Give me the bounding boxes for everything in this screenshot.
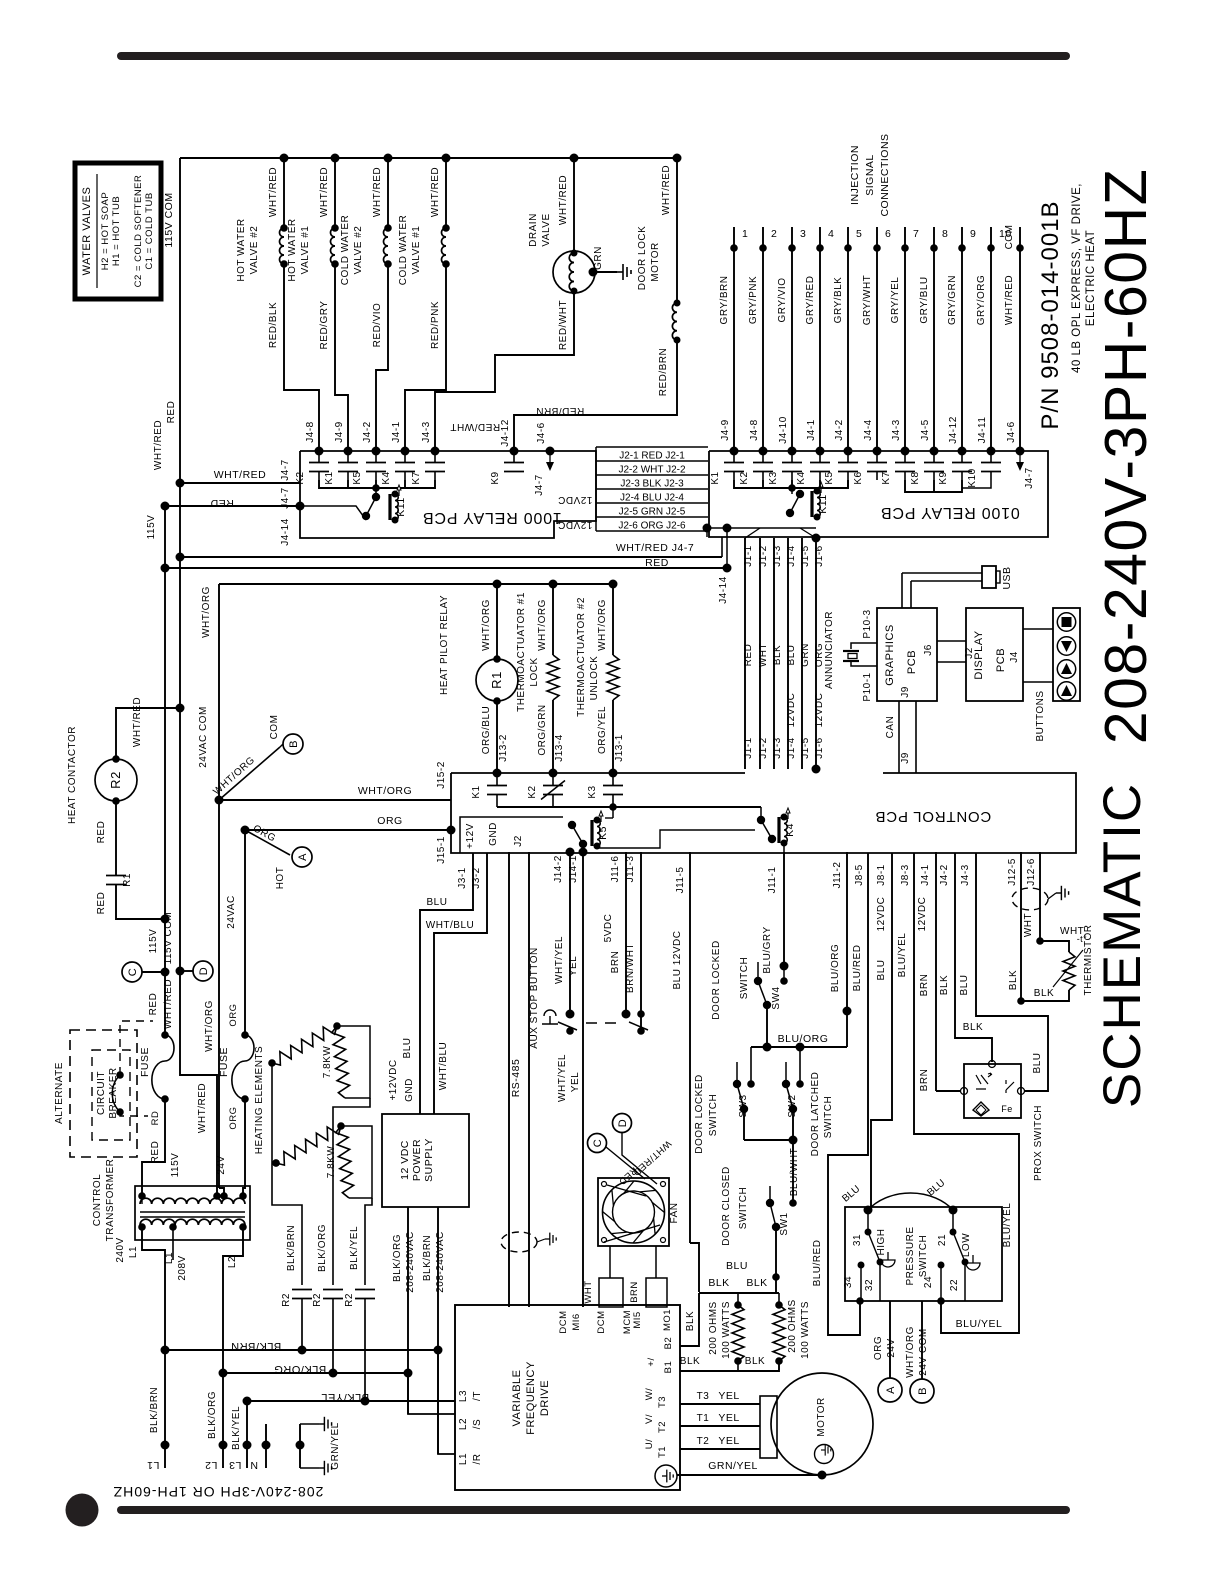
svg-text:RED: RED [148, 993, 159, 1016]
svg-text:J1-5: J1-5 [800, 545, 811, 566]
svg-text:BLU/WHT: BLU/WHT [789, 1148, 800, 1197]
element feed wires [271, 1063, 273, 1163]
svg-text:J8-1: J8-1 [876, 864, 887, 885]
legend: water valves key box [75, 163, 161, 299]
svg-text:N: N [250, 1459, 258, 1471]
svg-text:HEAT CONTACTOR: HEAT CONTACTOR [67, 726, 78, 824]
svg-text:24V: 24V [216, 1155, 227, 1174]
svg-text:GND: GND [404, 1078, 415, 1102]
top rule bar [117, 52, 1070, 60]
svg-text:R2: R2 [312, 1293, 323, 1307]
K11 relay in 0100 relay pcb [796, 490, 804, 498]
K2 contact NC [549, 769, 558, 778]
injection line 8 GRY/BLU [933, 227, 935, 451]
display pcb box [966, 608, 1023, 701]
svg-text:BLU 12VDC: BLU 12VDC [672, 931, 683, 990]
graphics pcb box [877, 608, 937, 701]
svg-text:HIGH: HIGH [876, 1229, 887, 1256]
svg-text:MOTOR: MOTOR [650, 242, 661, 282]
svg-text:Fe: Fe [1001, 1104, 1013, 1114]
svg-text:WHT/RED: WHT/RED [430, 167, 441, 217]
svg-text:ANNUNCIATOR: ANNUNCIATOR [824, 611, 835, 689]
svg-text:CONTROL: CONTROL [92, 1174, 103, 1226]
svg-text:DRAIN: DRAIN [528, 213, 539, 247]
wire from K5 coil across [597, 830, 755, 848]
heat contactor R2 [95, 759, 137, 801]
svg-text:BLU: BLU [1032, 1053, 1043, 1074]
svg-text:5: 5 [856, 228, 862, 240]
115V COM bus [179, 158, 181, 971]
svg-text:208-240VAC: 208-240VAC [435, 1231, 446, 1293]
svg-text:J9: J9 [900, 686, 911, 698]
injection line 10 GRY/ORG [990, 227, 992, 451]
svg-text:WHT/YEL: WHT/YEL [557, 1054, 568, 1102]
svg-text:24VAC COM: 24VAC COM [198, 706, 209, 768]
door closed switch SW1 [789, 1199, 797, 1207]
svg-text:J1-3: J1-3 [772, 737, 783, 758]
wire WHT/BLU to psu [434, 853, 487, 1114]
svg-text:RED: RED [150, 1141, 161, 1164]
svg-text:BLK: BLK [746, 1277, 767, 1289]
svg-text:BLK/ORG: BLK/ORG [274, 1363, 326, 1375]
svg-text:RD: RD [150, 1111, 161, 1126]
svg-text:ORG/GRN: ORG/GRN [537, 704, 548, 755]
prox pins [961, 1088, 968, 1095]
ferrite on rs485 [501, 1232, 537, 1252]
svg-text:GRN: GRN [593, 246, 604, 270]
door lock motor [673, 154, 682, 163]
svg-text:L1: L1 [147, 1459, 160, 1471]
svg-text:L3: L3 [458, 1390, 469, 1402]
L2 terminal [222, 1373, 224, 1468]
svg-text:USB: USB [1001, 566, 1013, 589]
svg-text:BLU: BLU [427, 897, 448, 908]
svg-text:PRESSURE: PRESSURE [905, 1226, 916, 1285]
svg-text:HEAT PILOT RELAY: HEAT PILOT RELAY [439, 595, 450, 695]
relay contact K2 at J4-8 [315, 447, 324, 456]
svg-text:SW4: SW4 [771, 986, 782, 1009]
svg-text:GRY/RED: GRY/RED [805, 276, 816, 325]
J2 inner connector block [460, 817, 563, 853]
svg-text:115V COM: 115V COM [163, 912, 174, 965]
svg-text:BLU/YEL: BLU/YEL [956, 1318, 1003, 1330]
svg-text:K1: K1 [324, 471, 335, 484]
svg-text:BLU: BLU [786, 645, 797, 666]
page number dot [66, 1494, 99, 1527]
svg-text:J11-6: J11-6 [610, 856, 621, 883]
wire BLU from prox right pin [976, 853, 1048, 1091]
fuse 115V [161, 1031, 169, 1039]
svg-text:WHT/BLU: WHT/BLU [438, 1042, 449, 1091]
thermoactuator #2 unlock [612, 584, 614, 655]
svg-text:BLU/RED: BLU/RED [812, 1240, 823, 1287]
svg-text:31: 31 [852, 1234, 863, 1246]
wire RED/VIO to J4-2 [376, 264, 388, 451]
svg-text:J2: J2 [964, 647, 975, 659]
wire B1 [680, 1361, 779, 1371]
svg-text:T1: T1 [697, 1413, 710, 1424]
svg-text:J12-6: J12-6 [1026, 858, 1037, 886]
svg-text:WHT/RED: WHT/RED [163, 979, 174, 1029]
svg-text:12VDC: 12VDC [786, 693, 797, 728]
svg-text:DCM: DCM [558, 1310, 569, 1333]
psu drops to vfd [408, 1373, 455, 1414]
svg-text:4: 4 [828, 228, 834, 240]
svg-text:J1-5: J1-5 [800, 737, 811, 758]
svg-text:1000 RELAY PCB: 1000 RELAY PCB [422, 509, 562, 526]
psu bottom wires [407, 1207, 409, 1414]
svg-text:HOT: HOT [275, 867, 286, 890]
svg-text:J1-3: J1-3 [772, 545, 783, 566]
svg-text:D: D [617, 1119, 629, 1127]
svg-text:BLK/BRN: BLK/BRN [422, 1235, 433, 1281]
RS-485 pair [508, 852, 510, 1307]
wire WHT/ORG vertical [218, 584, 220, 800]
pressure switch box [845, 1207, 1002, 1301]
wht/org down to transformer [218, 800, 220, 1188]
svg-text:J4-4: J4-4 [863, 419, 874, 440]
svg-text:C1 = COLD TUB: C1 = COLD TUB [144, 192, 155, 269]
svg-text:K5: K5 [824, 471, 835, 484]
svg-text:J4-6: J4-6 [536, 422, 547, 443]
alternate circuit breaker dashed box [70, 1030, 137, 1157]
svg-text:LOW: LOW [961, 1233, 972, 1257]
injection line 1 GRY/BRN [733, 227, 735, 451]
svg-text:GRY/BLK: GRY/BLK [833, 277, 844, 324]
svg-text:WHT/RED: WHT/RED [197, 1083, 208, 1133]
svg-text:C2 = COLD SOFTENER: C2 = COLD SOFTENER [133, 175, 144, 288]
svg-text:FUSE: FUSE [139, 1047, 151, 1077]
svg-text:J11-5: J11-5 [675, 867, 686, 894]
svg-text:K1: K1 [710, 471, 721, 484]
svg-text:BLU/RED: BLU/RED [852, 945, 863, 992]
svg-text:ORG: ORG [377, 815, 402, 827]
svg-text:ALTERNATE: ALTERNATE [54, 1062, 65, 1124]
svg-text:SUPPLY: SUPPLY [423, 1138, 435, 1182]
wire RED [161, 564, 170, 573]
svg-text:K9: K9 [938, 471, 949, 484]
svg-text:RED/PNK: RED/PNK [430, 301, 441, 349]
svg-text:SWITCH: SWITCH [738, 1187, 749, 1229]
svg-text:BLU/ORG: BLU/ORG [778, 1033, 829, 1045]
svg-text:THERMOACTUATOR #2: THERMOACTUATOR #2 [576, 597, 587, 717]
svg-text:J4-12: J4-12 [948, 416, 959, 444]
svg-text:J8-5: J8-5 [854, 864, 865, 885]
svg-text:208-240V-3PH OR 1PH-60HZ: 208-240V-3PH OR 1PH-60HZ [113, 1484, 324, 1500]
K1 contact on control pcb [493, 769, 502, 778]
element group 2 [272, 1159, 280, 1167]
svg-text:J9: J9 [900, 752, 911, 764]
injection line 6 GRY/WHT [876, 227, 878, 451]
fuse 24V [244, 830, 246, 1035]
relay contact K5 [847, 451, 849, 462]
svg-text:24: 24 [923, 1276, 934, 1288]
svg-text:GRN/YEL: GRN/YEL [330, 1422, 341, 1469]
svg-text:RED/WHT: RED/WHT [450, 421, 500, 432]
svg-text:J4-14: J4-14 [718, 576, 729, 604]
svg-text:2: 2 [771, 228, 777, 240]
svg-text:J1-6: J1-6 [814, 737, 825, 758]
svg-text:WHT/RED: WHT/RED [1004, 275, 1015, 325]
svg-text:ORG: ORG [228, 1003, 239, 1026]
svg-text:32: 32 [864, 1279, 875, 1291]
svg-text:U/: U/ [644, 1439, 655, 1450]
svg-text:FAN: FAN [669, 1203, 680, 1224]
wire WHT/RED J4-7 [176, 553, 185, 562]
svg-text:HEATING ELEMENTS: HEATING ELEMENTS [254, 1046, 265, 1154]
K9 contact [510, 447, 519, 456]
svg-text:WHT/RED: WHT/RED [319, 167, 330, 217]
BLU/WHT down to SW1 [792, 1140, 794, 1203]
svg-text:J2: J2 [513, 835, 524, 847]
wire 115V down to transformer [142, 1099, 165, 1196]
svg-text:WHT/BLU: WHT/BLU [426, 920, 475, 931]
svg-text:-t°: -t° [1077, 934, 1088, 944]
svg-text:BLU: BLU [876, 960, 887, 981]
svg-text:BRN: BRN [919, 974, 930, 997]
P10 wires + annunciator [851, 643, 877, 649]
svg-text:DOOR LOCKED: DOOR LOCKED [711, 940, 722, 1019]
svg-text:/T: /T [472, 1391, 483, 1401]
svg-text:J4-5: J4-5 [920, 419, 931, 440]
svg-text:J4-6: J4-6 [1006, 421, 1017, 442]
wires to buses [301, 1310, 303, 1350]
door locked switch SW3 [750, 1047, 752, 1084]
annunciator symbol [843, 650, 859, 652]
svg-text:12VDC: 12VDC [876, 897, 887, 932]
horizontal WHT/RED to relay J4-7 [176, 479, 185, 488]
svg-text:WHT: WHT [1023, 913, 1034, 937]
svg-text:L2: L2 [227, 1256, 238, 1268]
svg-text:BLK: BLK [939, 975, 950, 995]
svg-text:J14-2: J14-2 [553, 855, 564, 883]
svg-text:22: 22 [949, 1279, 960, 1291]
svg-text:VALVE: VALVE [541, 213, 552, 246]
svg-text:TRANSFORMER: TRANSFORMER [105, 1159, 116, 1242]
svg-text:GRN/YEL: GRN/YEL [708, 1460, 758, 1472]
wires to R2 contacts [272, 1163, 302, 1285]
svg-text:+12VDC: +12VDC [388, 1059, 399, 1100]
svg-text:BLU/YEL: BLU/YEL [897, 933, 908, 978]
svg-text:200 OHMS: 200 OHMS [787, 1299, 798, 1352]
svg-text:VALVE #1: VALVE #1 [300, 226, 311, 275]
svg-text:DCM: DCM [596, 1310, 607, 1333]
svg-text:B2: B2 [663, 1337, 674, 1350]
svg-text:GRY/PNK: GRY/PNK [748, 276, 759, 324]
wire BLU/YEL to pressure switch 24 [914, 853, 1019, 1333]
svg-text:3: 3 [800, 228, 806, 240]
svg-text:HOT WATER: HOT WATER [287, 218, 298, 281]
svg-text:GRY/GRN: GRY/GRN [947, 275, 958, 325]
injection line 3 GRY/VIO [791, 227, 793, 451]
svg-text:BRN: BRN [629, 1281, 640, 1303]
svg-text:GND: GND [488, 822, 499, 846]
svg-text:CAN: CAN [885, 716, 896, 739]
dashed link to second pole [586, 1022, 622, 1024]
svg-text:ORG/YEL: ORG/YEL [597, 706, 608, 754]
svg-text:FREQUENCY: FREQUENCY [525, 1361, 537, 1435]
svg-text:COLD WATER: COLD WATER [340, 215, 351, 286]
svg-text:12VDC: 12VDC [917, 897, 928, 932]
svg-text:J13-4: J13-4 [554, 734, 565, 762]
svg-text:J4-14: J4-14 [280, 518, 291, 546]
svg-text:12 VDC: 12 VDC [399, 1140, 411, 1180]
svg-text:208-240V-3PH-60HZ: 208-240V-3PH-60HZ [1093, 168, 1159, 744]
svg-text:BLK/ORG: BLK/ORG [392, 1234, 403, 1282]
J4-6 pin with arrow [546, 447, 555, 456]
svg-text:RED: RED [743, 644, 754, 667]
transformer taps top [138, 1192, 146, 1200]
node A circle [292, 847, 312, 867]
svg-text:DOOR LATCHED: DOOR LATCHED [810, 1072, 821, 1157]
prox switch box [964, 1064, 1021, 1118]
svg-text:5VDC: 5VDC [603, 914, 614, 943]
relay contact K4 [819, 451, 821, 462]
svg-text:K11: K11 [817, 494, 829, 513]
BLU arc jumper [868, 1193, 953, 1210]
BLK/BRN bus [161, 1346, 170, 1355]
svg-text:MI5: MI5 [632, 1311, 643, 1328]
svg-text:BLK/YEL: BLK/YEL [231, 1406, 242, 1450]
svg-text:SW2: SW2 [787, 1094, 798, 1117]
svg-text:100 WATTS: 100 WATTS [800, 1301, 811, 1359]
svg-text:J2-1 RED J2-1: J2-1 RED J2-1 [619, 451, 685, 462]
svg-text:RED: RED [96, 821, 107, 844]
svg-text:PROX SWITCH: PROX SWITCH [1033, 1105, 1044, 1181]
wire B2 [680, 1293, 699, 1346]
second pole switch [622, 1010, 631, 1019]
svg-text:J4-1: J4-1 [391, 421, 402, 442]
svg-text:208-240VAC: 208-240VAC [405, 1231, 416, 1293]
injection line 9 GRY/GRN [961, 227, 963, 451]
svg-text:J11-2: J11-2 [832, 862, 843, 889]
svg-text:K8: K8 [910, 471, 921, 484]
svg-text:L1: L1 [128, 1246, 139, 1258]
svg-text:BLK/YEL: BLK/YEL [349, 1226, 360, 1270]
buttons strip [1053, 608, 1080, 701]
svg-text:WHT: WHT [758, 643, 769, 667]
svg-text:WHT/YEL: WHT/YEL [554, 936, 565, 984]
svg-text:BLK: BLK [685, 1311, 696, 1331]
BLK/YEL bus [243, 1397, 252, 1406]
svg-text:12VDC: 12VDC [558, 519, 593, 530]
svg-text:L2: L2 [458, 1418, 469, 1430]
svg-text:ORG/BLU: ORG/BLU [481, 706, 492, 755]
svg-text:SWITCH: SWITCH [708, 1094, 719, 1136]
K5 wires [582, 844, 584, 852]
svg-text:DOOR CLOSED: DOOR CLOSED [721, 1166, 732, 1245]
door latched switch SW2 [799, 1047, 801, 1084]
svg-text:BLK: BLK [708, 1277, 729, 1289]
WHT/ORG bus [219, 583, 613, 585]
prox internals: diamond [973, 1102, 989, 1116]
element group 1 [268, 1059, 276, 1067]
relay contact K6 [876, 451, 878, 462]
injection line 7 GRY/YEL [904, 227, 906, 451]
motor wires T1-T3 [680, 1403, 760, 1405]
svg-text:BLK: BLK [1034, 988, 1054, 999]
svg-text:LOCK: LOCK [529, 657, 540, 686]
svg-text:24VAC: 24VAC [226, 895, 237, 928]
svg-text:WHT/RED: WHT/RED [268, 167, 279, 217]
wire RED/PNK to J4-1 [405, 264, 446, 451]
svg-text:GRAPHICS: GRAPHICS [884, 624, 896, 685]
BLU/ORG junction bus [751, 1046, 847, 1048]
bottom rule bar [117, 1506, 1070, 1514]
GRN/YEL ground bracket [299, 1424, 301, 1468]
svg-text:RS-485: RS-485 [510, 1059, 522, 1098]
injection line 2 GRY/PNK [762, 227, 764, 451]
svg-text:BLK/BRN: BLK/BRN [149, 1387, 160, 1433]
node C circle fan [588, 1134, 607, 1153]
svg-text:24V COM: 24V COM [918, 1328, 929, 1375]
wire K11 common to switch [791, 488, 793, 494]
svg-text:R1: R1 [122, 873, 133, 887]
svg-text:BRN: BRN [919, 1069, 930, 1092]
svg-text:1: 1 [742, 228, 748, 240]
svg-text:+/: +/ [646, 1357, 657, 1366]
svg-text:6: 6 [885, 228, 891, 240]
wires down from J11-2/J8 [846, 852, 848, 1011]
svg-text:BLU: BLU [402, 1038, 413, 1059]
wire K11 to J4-14 [300, 506, 366, 520]
svg-text:K5: K5 [352, 471, 363, 484]
svg-text:YEL: YEL [718, 1435, 739, 1447]
svg-text:UNLOCK: UNLOCK [589, 656, 600, 701]
svg-text:B1: B1 [663, 1361, 674, 1374]
svg-text:J2-4 BLU J2-4: J2-4 BLU J2-4 [620, 493, 684, 504]
svg-text:J4-2: J4-2 [362, 421, 373, 442]
thermoactuator #1 lock [552, 584, 554, 655]
svg-text:FUSE: FUSE [218, 1047, 230, 1077]
svg-text:J4-3: J4-3 [891, 419, 902, 440]
svg-text:SW3: SW3 [738, 1094, 749, 1117]
relay contact K2 [762, 451, 764, 462]
relay contact K10 [990, 451, 992, 462]
wire BLU/RED to pressure switch 34 [828, 853, 868, 1335]
svg-text:C: C [592, 1139, 604, 1147]
svg-text:40 LB OPL EXPRESS, VF DRIVE,: 40 LB OPL EXPRESS, VF DRIVE, [1071, 183, 1083, 373]
svg-text:/R: /R [472, 1454, 483, 1465]
svg-text:J4-7: J4-7 [534, 474, 545, 495]
svg-text:J4-2: J4-2 [939, 864, 950, 885]
svg-text:12VDC: 12VDC [814, 693, 825, 728]
node B circle [283, 734, 303, 754]
svg-text:J4: J4 [1009, 651, 1020, 663]
svg-text:MO1: MO1 [662, 1309, 673, 1331]
svg-text:K1: K1 [471, 785, 482, 798]
svg-text:DRIVE: DRIVE [539, 1380, 551, 1416]
water valve 1: HOT WATER VALVE #2 [280, 154, 289, 163]
svg-text:BRN: BRN [610, 951, 621, 974]
relay contact K3 [791, 451, 793, 462]
svg-text:T2: T2 [697, 1436, 710, 1447]
svg-text:J12-5: J12-5 [1007, 858, 1018, 886]
svg-text:R2: R2 [281, 1293, 292, 1307]
door locked switch SW4 [780, 962, 789, 971]
svg-text:K3: K3 [768, 471, 779, 484]
USB connector [901, 573, 903, 608]
svg-text:WHT: WHT [583, 1280, 594, 1303]
horizontal RED to relay J4-14 [165, 505, 301, 507]
svg-text:24V: 24V [886, 1338, 897, 1357]
svg-text:115V COM: 115V COM [163, 192, 175, 247]
svg-text:BLU/GRY: BLU/GRY [762, 926, 773, 973]
svg-text:WHT/ORG: WHT/ORG [537, 599, 548, 651]
node D circle [193, 961, 213, 981]
svg-text:VARIABLE: VARIABLE [511, 1370, 523, 1427]
K4 relay [760, 807, 762, 820]
